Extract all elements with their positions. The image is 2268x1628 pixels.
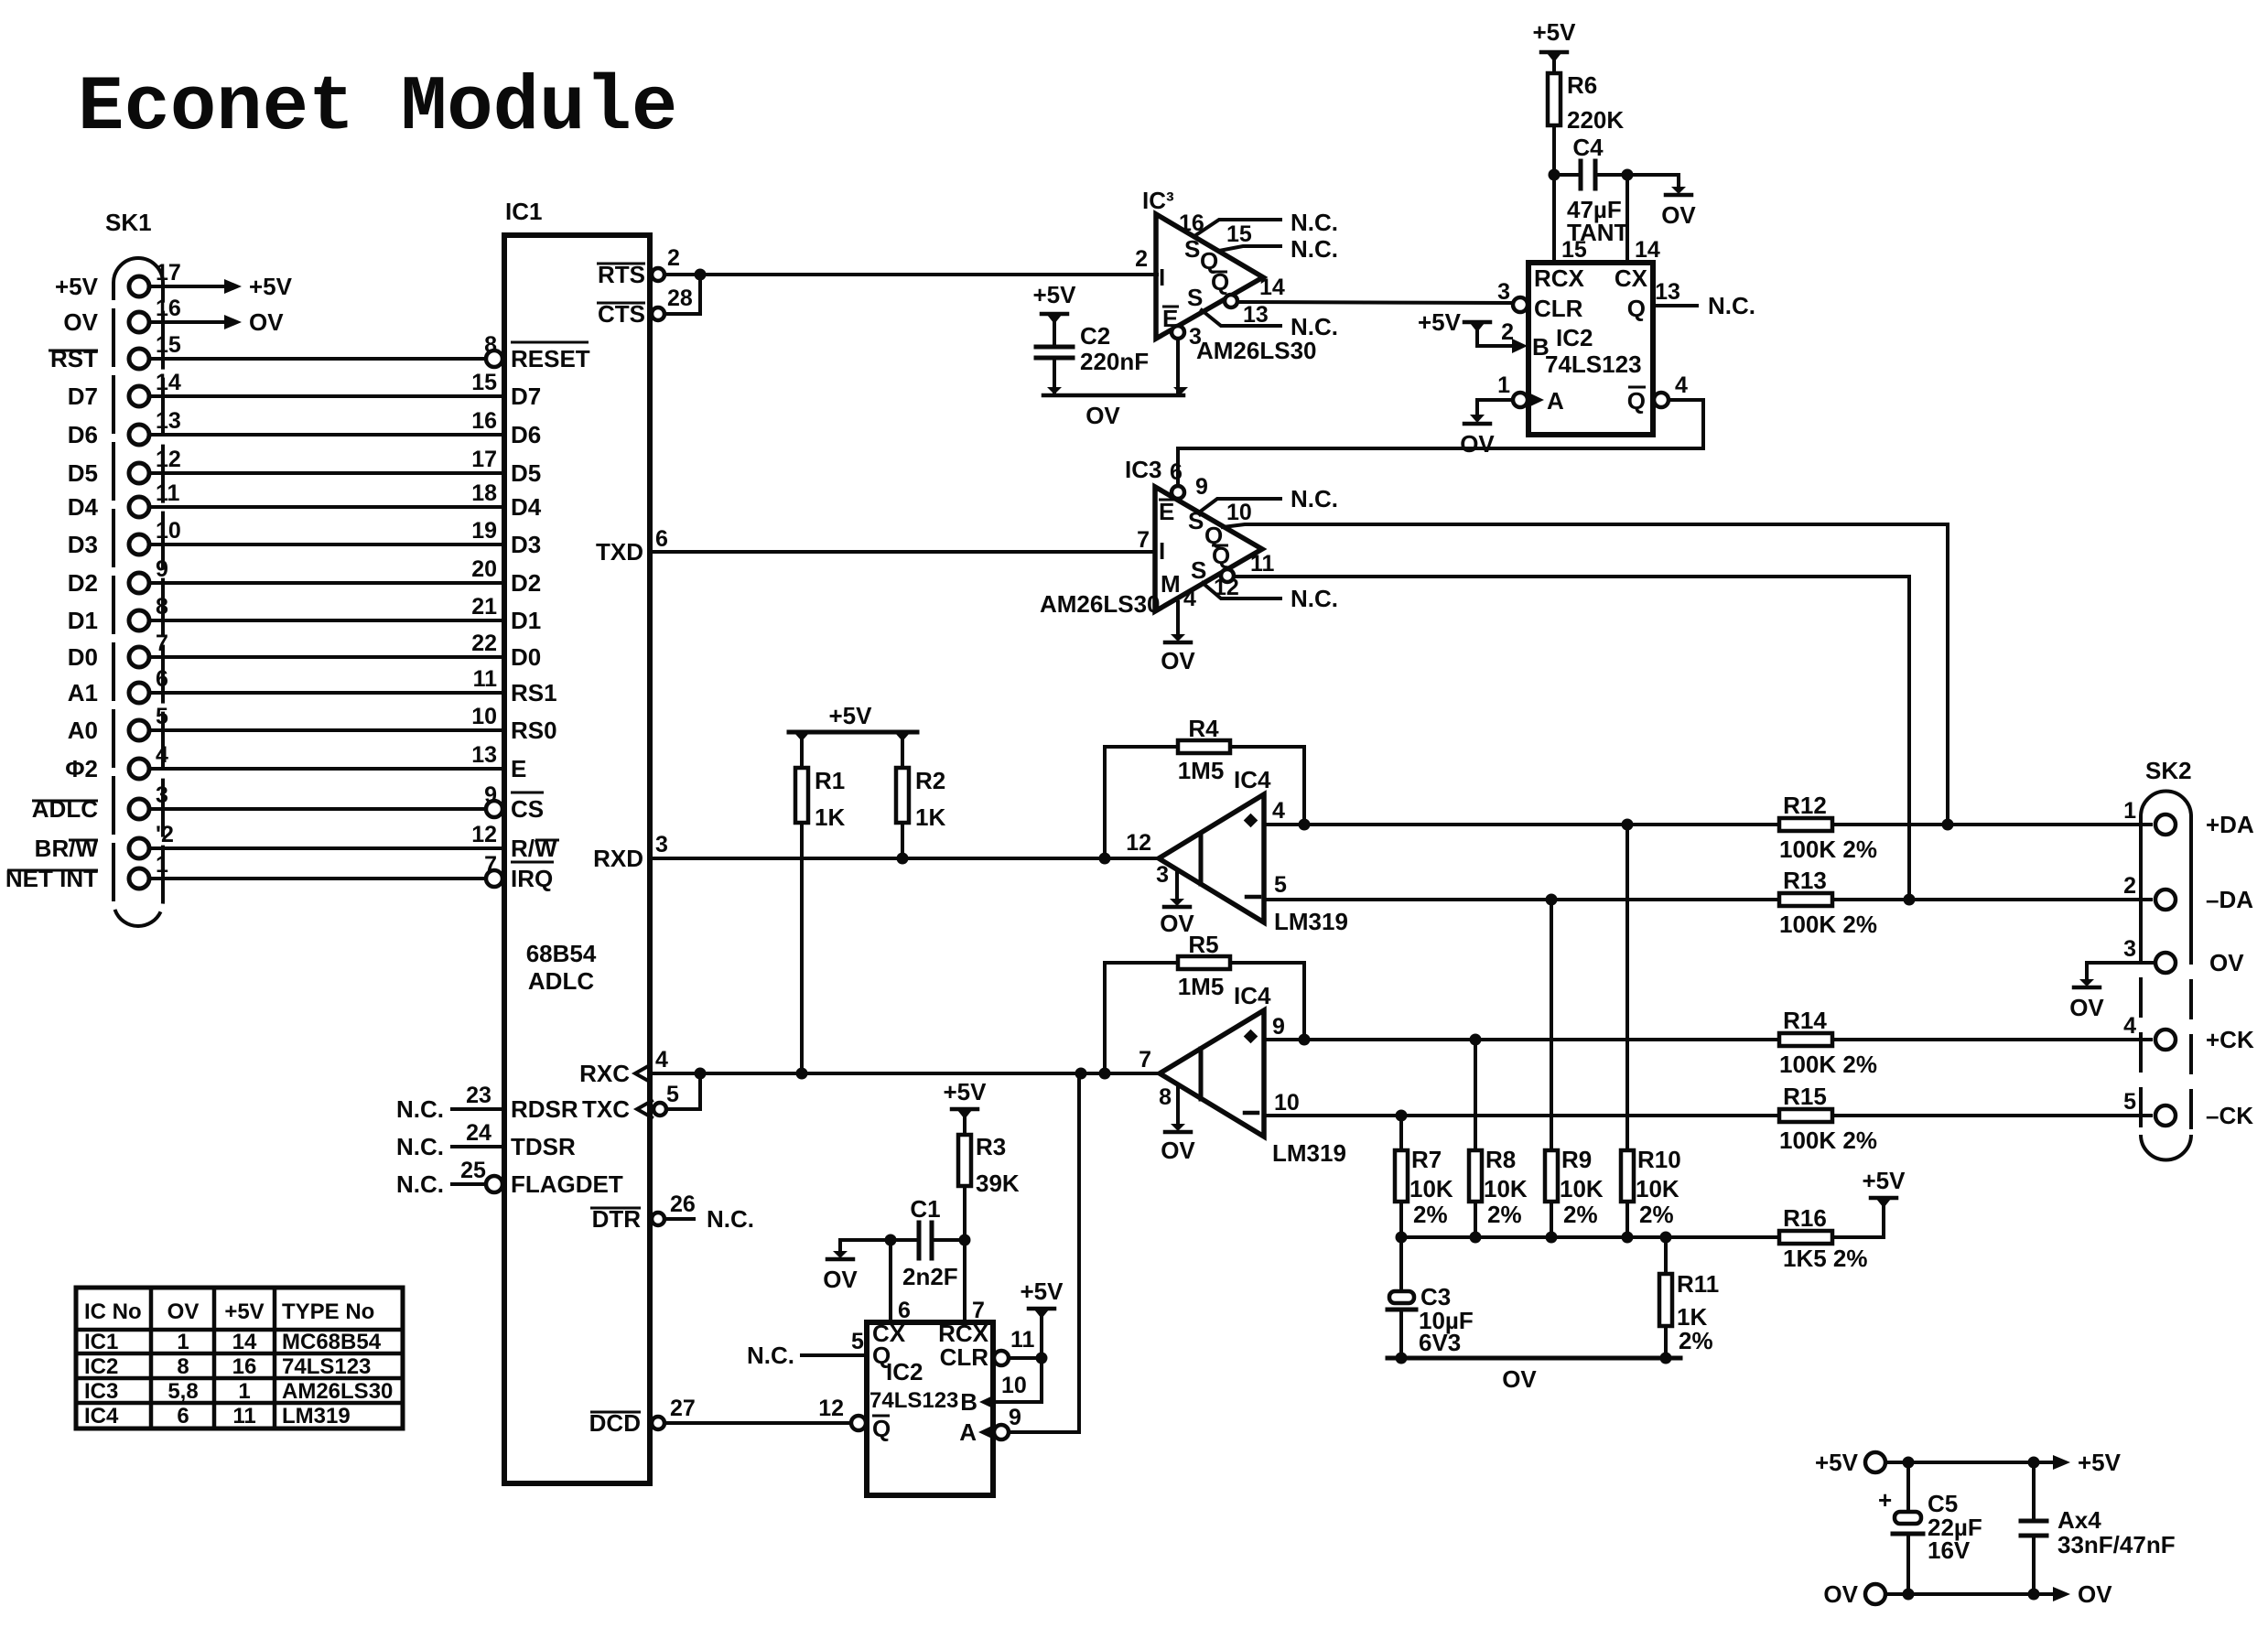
svg-text:OV: OV (1460, 430, 1495, 458)
svg-text:D3: D3 (68, 531, 98, 558)
svg-text:CX: CX (1615, 264, 1648, 292)
svg-text:16: 16 (1179, 210, 1204, 236)
SK2 pin 4 +CK (2123, 1013, 2254, 1053)
wire A0 pin10 (149, 704, 504, 730)
svg-text:Φ2: Φ2 (65, 755, 98, 782)
ground stub IC4 lower (1161, 1087, 1195, 1164)
label AM26LS30 lower (1040, 590, 1161, 618)
svg-text:N.C.: N.C. (747, 1342, 794, 1369)
svg-text:7: 7 (1139, 1047, 1151, 1073)
IC2 upper pin 2 B input from +5V (1418, 308, 1550, 361)
wire ADLC to CS pin9 (149, 782, 497, 809)
svg-text:+5V: +5V (249, 273, 293, 300)
SK1 pin 9 (129, 556, 168, 593)
svg-text:–DA: –DA (2206, 886, 2253, 913)
wire R1 down to RXC (800, 823, 804, 1073)
svg-text:14: 14 (232, 1330, 257, 1354)
IC1 pin 25 FLAGDET (396, 1158, 623, 1198)
svg-text:+CK: +CK (2206, 1026, 2254, 1053)
resistor R2 1K (896, 732, 945, 831)
svg-text:10K: 10K (1409, 1175, 1453, 1202)
svg-text:74LS123: 74LS123 (282, 1354, 371, 1379)
svg-text:100K 2%: 100K 2% (1779, 911, 1877, 938)
svg-text:N.C.: N.C. (707, 1205, 754, 1233)
svg-text:OV: OV (1161, 1137, 1195, 1164)
svg-text:10: 10 (1226, 500, 1252, 525)
IC2 74LS123 lower box (867, 1320, 993, 1495)
svg-text:R1: R1 (815, 767, 845, 794)
svg-text:S: S (1184, 235, 1200, 263)
svg-text:2: 2 (667, 245, 680, 271)
wire D4 pin18 (149, 480, 504, 507)
SK1 pin 17 (129, 260, 181, 296)
SK1 pin 16 (129, 296, 181, 332)
IC2 74LS123 upper box (1528, 237, 1660, 435)
ground stub IC4 upper (1160, 870, 1194, 937)
svg-text:OV: OV (2078, 1580, 2112, 1608)
svg-text:8: 8 (1159, 1084, 1172, 1110)
resistor R14 100K (1779, 1007, 1877, 1078)
svg-text:9: 9 (156, 556, 168, 582)
svg-text:N.C.: N.C. (396, 1170, 444, 1198)
svg-text:+: + (1878, 1486, 1892, 1514)
svg-text:IC1: IC1 (505, 198, 542, 225)
IC1 left pin labels (486, 342, 590, 892)
svg-text:D5: D5 (68, 459, 98, 487)
svg-text:6: 6 (156, 666, 168, 692)
svg-text:CLR: CLR (940, 1343, 989, 1371)
svg-text:N.C.: N.C. (1708, 292, 1755, 319)
wire SK2 pin3 to ground (2069, 963, 2155, 1021)
IC2 lower pin 11 CLR to +5V (994, 1278, 1064, 1365)
svg-text:N.C.: N.C. (1291, 209, 1338, 236)
IC4 upper output pin 5 (1264, 872, 1304, 900)
resistor R1 1K (795, 732, 845, 831)
svg-text:10: 10 (1274, 1090, 1300, 1116)
svg-text:6V3: 6V3 (1419, 1329, 1461, 1356)
svg-text:1K5 2%: 1K5 2% (1783, 1245, 1868, 1272)
wire D1 pin21 (149, 594, 504, 620)
svg-text:Q: Q (1627, 295, 1646, 322)
IC1 pin 28 CTS (597, 286, 693, 328)
svg-text:RXC: RXC (579, 1060, 630, 1087)
wire SK1-16 to 0V (149, 308, 284, 336)
capacitor Ax4 33nF/47nF (2021, 1462, 2176, 1594)
resistor R5 1M5 feedback (1105, 931, 1304, 1073)
svg-text:R9: R9 (1561, 1146, 1592, 1173)
svg-text:RDSR: RDSR (511, 1095, 578, 1123)
svg-text:+5V: +5V (1418, 308, 1462, 336)
SK1 pin 3 (129, 782, 168, 819)
svg-text:220nF: 220nF (1080, 348, 1149, 375)
wire BR/W pin12 (149, 822, 504, 848)
svg-text:R13: R13 (1783, 867, 1827, 894)
svg-text:OV: OV (1085, 402, 1120, 429)
svg-text:TYPE No: TYPE No (282, 1299, 374, 1324)
svg-text:R8: R8 (1485, 1146, 1516, 1173)
svg-text:IC2: IC2 (886, 1358, 923, 1385)
wire C4 right to ground (1627, 175, 1679, 187)
svg-text:1: 1 (177, 1330, 189, 1354)
svg-text:2%: 2% (1639, 1201, 1674, 1228)
ground at IC3 lower (1161, 634, 1195, 674)
capacitor C5 22uF 16V (1878, 1462, 1982, 1594)
svg-text:39K: 39K (976, 1170, 1020, 1197)
svg-text:+5V: +5V (1021, 1278, 1064, 1305)
IC3 lower pin 11 output wire to -DA (1221, 551, 1909, 900)
IC3 lower pin 10 output wire to +DA (1223, 500, 1948, 825)
SK1 pin 6 (129, 666, 168, 703)
wire PHI2 pin13 (149, 742, 504, 769)
resistor R12 100K (1779, 792, 1877, 863)
svg-text:12: 12 (1126, 830, 1151, 856)
svg-text:1: 1 (2123, 798, 2136, 824)
svg-text:6: 6 (1170, 459, 1183, 485)
svg-text:17: 17 (156, 260, 181, 286)
svg-text:19: 19 (471, 518, 497, 544)
node +5V input bottom right (1815, 1449, 1885, 1476)
svg-text:11: 11 (1250, 551, 1275, 577)
IC1 MC68B54 ADLC (504, 198, 650, 1483)
wire SK1-17 to +5V (149, 273, 293, 300)
svg-text:1M5: 1M5 (1178, 973, 1225, 1000)
svg-text:8: 8 (156, 594, 168, 620)
IC3 lower pin 7 input label (1137, 527, 1150, 553)
svg-text:CS: CS (511, 795, 544, 823)
svg-text:12: 12 (471, 822, 497, 847)
svg-text:15: 15 (156, 332, 181, 358)
svg-text:5: 5 (2123, 1089, 2136, 1115)
svg-text:+5V: +5V (224, 1299, 264, 1324)
svg-text:15: 15 (1561, 237, 1587, 263)
svg-text:3: 3 (2123, 936, 2136, 962)
svg-text:TXC: TXC (582, 1095, 630, 1123)
svg-text:6: 6 (655, 526, 668, 552)
svg-text:RS0: RS0 (511, 717, 557, 744)
IC2 lower pin 5 N.C. (747, 1329, 867, 1369)
svg-text:B: B (960, 1388, 977, 1416)
SK1 pin 15 (129, 332, 181, 369)
svg-text:10: 10 (156, 518, 181, 544)
svg-text:OV: OV (1823, 1580, 1858, 1608)
IC3 upper pin 3 enable (1172, 324, 1202, 395)
SK1 pin 5 (129, 704, 168, 740)
svg-text:4: 4 (1272, 798, 1285, 824)
svg-text:3: 3 (156, 782, 168, 808)
svg-text:18: 18 (471, 480, 497, 506)
svg-text:RXD: RXD (593, 845, 643, 872)
wire D3 pin19 (149, 518, 504, 544)
svg-text:AM26LS30: AM26LS30 (282, 1379, 393, 1404)
svg-text:16: 16 (471, 408, 497, 434)
svg-text:24: 24 (466, 1120, 491, 1146)
svg-text:D6: D6 (511, 421, 541, 448)
svg-text:D5: D5 (511, 459, 541, 487)
svg-text:10K: 10K (1560, 1175, 1604, 1202)
IC3 lower pin 9 N.C. (1195, 474, 1338, 512)
svg-text:IRQ: IRQ (511, 865, 553, 892)
resistor R7 10K (1395, 1116, 1453, 1237)
IC3 lower pin 4 to ground (1178, 586, 1196, 634)
resistor R4 1M5 feedback (1105, 715, 1304, 858)
svg-text:10K: 10K (1484, 1175, 1528, 1202)
svg-text:28: 28 (667, 286, 693, 311)
wire RST to RESET pin 8 (149, 332, 497, 359)
wire D0 pin22 (149, 631, 504, 657)
svg-text:9: 9 (1195, 474, 1208, 500)
svg-text:+5V: +5V (1533, 18, 1577, 46)
svg-text:10: 10 (471, 704, 497, 729)
svg-text:26: 26 (670, 1191, 696, 1217)
SK2 pin 3 0V (2123, 936, 2244, 976)
svg-text:100K 2%: 100K 2% (1779, 1051, 1877, 1078)
svg-text:ADLC: ADLC (528, 967, 594, 995)
IC1 pin 24 TDSR (396, 1120, 576, 1160)
svg-text:R4: R4 (1188, 715, 1219, 742)
svg-text:+5V: +5V (1815, 1449, 1859, 1476)
svg-text:N.C.: N.C. (1291, 485, 1338, 512)
svg-text:6: 6 (177, 1404, 189, 1429)
+5V supply for R3 (944, 1078, 988, 1135)
svg-text:R7: R7 (1411, 1146, 1442, 1173)
svg-text:R14: R14 (1783, 1007, 1827, 1034)
svg-text:8: 8 (177, 1354, 189, 1379)
svg-text:3: 3 (1497, 279, 1510, 305)
connector SK1 (105, 209, 163, 926)
wire R3 to C1 node and pin7 (959, 1186, 971, 1322)
svg-text:1K: 1K (815, 803, 845, 831)
comparator IC4 upper LM319 (1126, 766, 1348, 935)
svg-text:OV: OV (1502, 1365, 1537, 1393)
svg-text:IC2: IC2 (84, 1354, 118, 1379)
wire RXD to IC4 upper input (650, 853, 1159, 865)
svg-text:11: 11 (232, 1404, 255, 1429)
svg-text:+5V: +5V (944, 1078, 988, 1105)
svg-text:3: 3 (655, 832, 668, 857)
IC3 upper pin 16 N.C. (1179, 209, 1338, 236)
+5V at R16 (1863, 1167, 1906, 1208)
+5V rail above R1/R2 (789, 702, 917, 741)
IC1 pin 5 TXC (582, 1082, 679, 1123)
SK1 pin 7 (129, 631, 168, 667)
SK1 pin 2 (129, 822, 174, 858)
IC4 lower output pin 10 (1264, 1090, 1304, 1116)
resistor R6 220K (1548, 71, 1624, 134)
svg-text:Q: Q (1627, 387, 1646, 415)
svg-text:11: 11 (1010, 1327, 1035, 1353)
SK1 pin 13 (129, 408, 181, 445)
svg-text:+DA: +DA (2206, 811, 2254, 838)
IC2 lower pin 9 A input from RXC (959, 1073, 1079, 1446)
wire D7 pin15 (149, 370, 504, 396)
svg-text:22: 22 (471, 631, 497, 656)
svg-text:27: 27 (670, 1396, 696, 1421)
svg-text:IC No: IC No (84, 1299, 142, 1324)
svg-text:IC1: IC1 (84, 1330, 118, 1354)
svg-text:16: 16 (232, 1354, 257, 1379)
svg-text:20: 20 (471, 556, 497, 582)
IC2 upper pin 13 Q N.C. (1653, 279, 1755, 319)
capacitor C2 220nF (1033, 281, 1150, 395)
svg-text:AM26LS30: AM26LS30 (1040, 590, 1161, 618)
svg-text:IC4: IC4 (84, 1404, 119, 1429)
svg-text:+5V: +5V (1033, 281, 1077, 308)
svg-text:4: 4 (1675, 372, 1688, 398)
svg-text:1K: 1K (915, 803, 945, 831)
resistor R11 1K (1659, 1237, 1719, 1358)
SK1 pin 1 (129, 852, 168, 889)
svg-text:I: I (1159, 537, 1165, 565)
svg-text:4: 4 (2123, 1013, 2136, 1039)
wire +CK line with R14 (1304, 1034, 2151, 1046)
svg-text:IC2: IC2 (1556, 324, 1593, 351)
svg-text:D3: D3 (511, 531, 541, 558)
SK1 pin 8 (129, 594, 168, 631)
svg-text:23: 23 (466, 1083, 491, 1108)
wire D6 pin16 (149, 408, 504, 435)
svg-text:R12: R12 (1783, 792, 1827, 819)
svg-text:OV: OV (167, 1299, 200, 1324)
svg-text:R3: R3 (976, 1133, 1006, 1160)
svg-text:A1: A1 (68, 679, 98, 706)
title "Econet Module" (78, 65, 677, 152)
svg-text:12: 12 (1214, 575, 1239, 600)
svg-text:12: 12 (818, 1396, 844, 1421)
wire DCD to IC2 pin12 (664, 1396, 866, 1430)
svg-text:14: 14 (1635, 237, 1660, 263)
driver IC3 AM26LS30 upper section (1135, 187, 1263, 339)
svg-text:D0: D0 (511, 643, 541, 671)
wire R16 to +5V (1832, 1207, 1884, 1237)
capacitor C3 10uF 6V3 (1388, 1237, 1474, 1358)
svg-text:D4: D4 (68, 493, 99, 521)
svg-text:TXD: TXD (596, 538, 643, 566)
svg-text:CLR: CLR (1534, 295, 1583, 322)
svg-text:5,8: 5,8 (167, 1379, 198, 1404)
SK1 pin 10 (129, 518, 181, 555)
IC1 pin 4 RXC (579, 1047, 668, 1087)
svg-text:13: 13 (1243, 302, 1269, 328)
svg-text:+5V: +5V (829, 702, 873, 729)
SK2 pin 5 -CK (2123, 1089, 2253, 1129)
svg-text:5: 5 (666, 1082, 679, 1107)
svg-text:4: 4 (156, 742, 168, 768)
ground rail bottom (1388, 1353, 1680, 1394)
SK1 pin 12 (129, 447, 181, 483)
svg-text:OV: OV (1661, 201, 1696, 229)
svg-text:D1: D1 (511, 607, 541, 634)
svg-text:14: 14 (1259, 275, 1285, 300)
svg-text:LM319: LM319 (1274, 908, 1348, 935)
IC1 pin 6 TXD (596, 526, 668, 566)
svg-text:11: 11 (473, 666, 498, 692)
wire D2 pin20 (149, 556, 504, 583)
svg-text:TDSR: TDSR (511, 1133, 576, 1160)
capacitor C1 2n2F (885, 1195, 966, 1290)
SK2 pin 2 -DA (2123, 873, 2253, 913)
ground rail under C2/IC3 (1043, 387, 1188, 429)
resistor R16 1K5 (1779, 1204, 1868, 1272)
resistor R15 100K (1779, 1083, 1877, 1154)
svg-text:AM26LS30: AM26LS30 (1196, 337, 1317, 364)
svg-text:2%: 2% (1487, 1201, 1522, 1228)
wire Qbar to IC3 lower enable (1178, 400, 1703, 486)
svg-text:15: 15 (1226, 221, 1252, 247)
svg-text:E: E (1159, 498, 1174, 525)
svg-text:D2: D2 (68, 569, 98, 597)
wire A1 pin11 (149, 666, 504, 693)
svg-text:R16: R16 (1783, 1204, 1827, 1232)
svg-text:16: 16 (156, 296, 181, 321)
svg-text:D0: D0 (68, 643, 98, 671)
svg-text:68B54: 68B54 (526, 940, 597, 967)
svg-text:2: 2 (1501, 319, 1514, 345)
svg-text:D6: D6 (68, 421, 98, 448)
IC2 upper pin 4 Qbar output (1654, 372, 1688, 407)
svg-text:+5V: +5V (1863, 1167, 1906, 1194)
svg-text:100K 2%: 100K 2% (1779, 1127, 1877, 1154)
svg-text:13: 13 (1655, 279, 1680, 305)
svg-text:3: 3 (1156, 862, 1169, 888)
wire RTS/CTS net to IC3 input (664, 269, 1157, 315)
svg-text:IC4: IC4 (1234, 982, 1271, 1009)
svg-text:2: 2 (1135, 246, 1148, 272)
resistor R10 10K (1621, 825, 1681, 1237)
svg-text:C1: C1 (910, 1195, 940, 1223)
svg-text:LM319: LM319 (282, 1404, 351, 1429)
wire TXC jog to RXC (666, 1073, 700, 1109)
svg-text:5: 5 (1274, 872, 1287, 898)
svg-text:13: 13 (471, 742, 497, 768)
wire 0V rail bottom right (1885, 1580, 2112, 1608)
wire -CK line with R15 (1304, 1110, 2151, 1122)
svg-text:R5: R5 (1188, 931, 1218, 958)
svg-text:9: 9 (1272, 1014, 1285, 1040)
wire R2 down to RXD (901, 823, 904, 858)
svg-text:D1: D1 (68, 607, 98, 634)
svg-text:C4: C4 (1572, 134, 1604, 161)
svg-text:LM319: LM319 (1272, 1139, 1346, 1167)
svg-text:S: S (1191, 556, 1206, 584)
wire bias rail (1396, 1232, 1780, 1244)
IC2 upper pin 1 A input grounded (1460, 372, 1564, 458)
svg-text:D4: D4 (511, 493, 542, 521)
svg-text:Q: Q (872, 1415, 891, 1442)
IC2 lower pin 10 B input (960, 1358, 1042, 1416)
svg-text:SK1: SK1 (105, 209, 152, 236)
resistor R9 10K (1545, 900, 1604, 1237)
IC3 upper pin 14 output to IC2 CLR (1225, 275, 1513, 307)
capacitor C4 47uF TANT (1554, 134, 1634, 246)
wire +DA line with R12 (1304, 819, 2151, 831)
svg-text:1: 1 (238, 1379, 250, 1404)
svg-text:IC4: IC4 (1234, 766, 1271, 793)
svg-text:7: 7 (156, 631, 168, 656)
wire R6 to pin15 (1549, 125, 1561, 263)
svg-text:D7: D7 (68, 383, 98, 410)
svg-text:N.C.: N.C. (1291, 235, 1338, 263)
svg-text:4: 4 (655, 1047, 668, 1073)
IC3 lower pin 6 enable circle (1172, 486, 1184, 499)
svg-text:I: I (1159, 264, 1165, 291)
svg-text:IC3: IC3 (84, 1379, 118, 1404)
svg-text:R2: R2 (915, 767, 945, 794)
svg-text:FLAGDET: FLAGDET (511, 1170, 623, 1198)
svg-text:RCX: RCX (1534, 264, 1585, 292)
svg-text:N.C.: N.C. (396, 1095, 444, 1123)
IC2 upper pin 3 CLR input (1497, 279, 1528, 312)
svg-text:OV: OV (823, 1266, 858, 1293)
